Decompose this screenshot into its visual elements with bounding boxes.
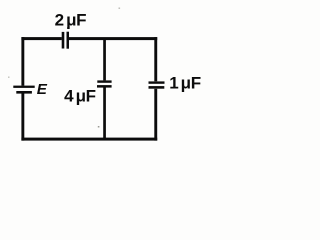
wire: right side, lower segment (C3 1uF to bottom-right corner)	[154, 89, 157, 141]
wire: middle branch, upper segment (top junction to C2 4uF)	[103, 39, 106, 81]
wire: top side, left segment (top-left corner to C1 2uF)	[21, 37, 61, 40]
scan speck near top	[119, 8, 121, 9]
svg-text:E: E	[37, 81, 48, 98]
svg-text:2 μF: 2 μF	[55, 11, 87, 30]
capacitor 1uF (right side, horizontal plates)	[149, 81, 165, 88]
capacitor 4uF (middle branch, horizontal plates)	[97, 80, 112, 87]
wire: left side, lower segment (battery E to bottom-left corner)	[21, 93, 24, 140]
wire: middle branch, lower segment (C2 4uF to bottom junction)	[103, 88, 106, 140]
battery E (left side, long plate + short plate)	[13, 86, 34, 94]
svg-text:4 μF: 4 μF	[64, 87, 96, 106]
scan speck left margin	[8, 77, 10, 78]
wire: left side, upper segment (top-left corner to battery E)	[21, 37, 24, 86]
svg-text:1 μF: 1 μF	[169, 74, 201, 93]
wire: right side, upper segment (top-right corner to C3 1uF)	[154, 37, 157, 81]
scan speck inside lower middle	[98, 126, 100, 128]
wire: bottom side (bottom-left corner to bottom-right corner)	[21, 138, 157, 141]
capacitor 2uF (top, vertical plates)	[62, 27, 69, 49]
wire: top side, right segment (C1 2uF to top-right corner)	[69, 37, 157, 40]
